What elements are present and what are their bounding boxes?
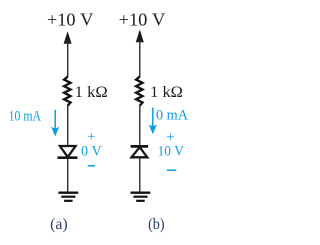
minus sign (a): [88, 165, 95, 167]
supply arrow head (b): [136, 30, 144, 43]
svg-text:+10 V: +10 V: [119, 9, 166, 29]
diode D (b): [131, 146, 149, 157]
svg-text:(b): (b): [148, 216, 165, 233]
wire: supply arrow shaft (a): [67, 40, 69, 77]
wire: resistor to diode (a): [67, 105, 69, 145]
svg-text:+10 V: +10 V: [47, 9, 93, 29]
svg-text:10 V: 10 V: [158, 144, 184, 160]
current arrow (b): [149, 108, 157, 135]
svg-text:0 V: 0 V: [81, 144, 102, 160]
current arrow (a): [51, 110, 59, 137]
ground (b): [131, 193, 151, 201]
diode D (a): [58, 146, 78, 158]
resistor R 1 kOhm (b): [136, 77, 142, 106]
svg-text:10 mA: 10 mA: [9, 108, 42, 124]
wire: supply arrow shaft (b): [139, 40, 141, 77]
wire: diode to ground (a): [67, 159, 69, 192]
wire: diode to ground (b): [139, 158, 141, 192]
resistor R 1 kOhm (a): [64, 77, 70, 106]
supply arrow head (a): [64, 31, 72, 44]
svg-text:1 kΩ: 1 kΩ: [150, 84, 183, 101]
ground (a): [58, 193, 78, 201]
svg-text:0 mA: 0 mA: [156, 108, 188, 124]
wire: resistor to diode (b): [139, 105, 141, 145]
minus sign (b): [167, 170, 177, 172]
svg-text:1 kΩ: 1 kΩ: [75, 84, 108, 101]
svg-text:(a): (a): [50, 216, 68, 233]
